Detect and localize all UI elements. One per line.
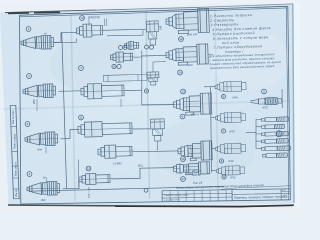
wire T4 to V3 — [133, 128, 151, 130]
dim line under toolholder2 — [36, 99, 38, 111]
boring bar — [103, 74, 147, 81]
svg-text:7: 7 — [223, 129, 225, 133]
balloon 16 — [181, 157, 186, 162]
wire A2 out right — [208, 53, 213, 55]
bus vertical left — [62, 33, 67, 189]
wire T2 to A2 — [125, 89, 142, 91]
vertical tool V4 — [146, 21, 159, 45]
balloon 5 — [262, 89, 267, 94]
fold crease vertical 3 — [215, 9, 218, 198]
balloon 2 — [27, 74, 32, 79]
wire T5 to A4 — [133, 150, 178, 153]
balloon kch4 — [221, 94, 225, 98]
wire tree branch 1 — [256, 118, 262, 120]
svg-text:Ø25×2: Ø25×2 — [191, 173, 201, 177]
svg-text:15 Ø42: 15 Ø42 — [113, 161, 122, 165]
filing divider 2 — [12, 150, 18, 152]
svg-text:9: 9 — [113, 65, 115, 69]
assembly A1 — [166, 8, 210, 34]
svg-text:3: 3 — [27, 122, 29, 126]
tool KCh3 — [215, 112, 245, 123]
mid tool T0 — [124, 41, 139, 49]
balloon 17 — [181, 177, 186, 182]
svg-text:9: 9 — [223, 175, 225, 179]
svg-text:Ø30×2: Ø30×2 — [190, 112, 200, 116]
wire row4 left — [63, 180, 80, 189]
svg-text:11: 11 — [79, 116, 82, 120]
fold crease vertical 1 — [71, 14, 75, 201]
svg-text:КЧ2: КЧ2 — [228, 159, 234, 163]
filing margin box top — [10, 104, 16, 106]
dim line toolholder4 — [46, 178, 48, 183]
vertical tool V2 — [147, 72, 159, 85]
svg-text:Ø40: Ø40 — [36, 148, 42, 151]
balloon pair a — [112, 64, 116, 68]
balloon 7 — [79, 66, 84, 71]
balloon 12 — [179, 37, 184, 42]
svg-text:13: 13 — [181, 90, 185, 94]
title block — [162, 189, 290, 202]
balloon 11 — [79, 115, 84, 120]
wire tree branch 3 — [256, 133, 262, 135]
svg-text:8: 8 — [182, 115, 184, 119]
svg-text:14: 14 — [178, 71, 182, 75]
svg-text:6: 6 — [223, 95, 225, 99]
right margin beyond paper — [294, 3, 301, 212]
assembly A5 — [173, 162, 209, 175]
wire row1 dim extension — [88, 19, 90, 26]
mid tool T1m — [76, 24, 103, 38]
wire bus to A2 — [142, 54, 166, 57]
filing margin column inner — [16, 105, 19, 199]
balloon 14 — [178, 70, 183, 75]
wire kch bus — [211, 87, 212, 173]
wire T1s to bus — [134, 56, 142, 58]
mid tool T5 — [98, 144, 133, 158]
svg-text:Инв.№ подл.: Инв.№ подл. — [12, 109, 15, 124]
svg-text:КЧ3: КЧ3 — [229, 129, 235, 133]
toolholder 1 — [21, 35, 54, 50]
filing divider 6 — [13, 198, 19, 200]
balloon 10 — [80, 16, 85, 21]
svg-text:140: 140 — [160, 25, 163, 30]
wire drill drop — [281, 89, 283, 108]
tree tool 5 — [261, 146, 290, 151]
dim line under toolholder3 — [45, 147, 47, 154]
mid tool T4 — [78, 121, 133, 138]
frame top border — [20, 6, 288, 15]
balloon 3 — [25, 122, 30, 127]
assembly A4 — [178, 141, 213, 161]
filing divider 1 — [11, 125, 17, 127]
balloon kch2 — [219, 159, 223, 163]
toolholder 4 — [27, 181, 60, 196]
balloon t1 pair — [119, 46, 123, 50]
assembly A3 — [173, 93, 212, 116]
svg-text:цилиндра КУ-65: цилиндра КУ-65 — [164, 198, 181, 201]
svg-text:Ø60: Ø60 — [40, 199, 46, 202]
wire bus to A3 — [142, 104, 174, 106]
mid tool T6 — [79, 173, 111, 185]
balloon 15 — [86, 166, 91, 171]
wire V3 drop — [157, 141, 159, 151]
tree tool 4 — [261, 139, 288, 144]
tool KCh2 — [215, 143, 245, 154]
wire bottom left vertical — [78, 160, 80, 187]
svg-text:Подп. и дата: Подп. и дата — [14, 133, 17, 149]
balloon 13 — [181, 89, 186, 94]
balloon pair b — [117, 64, 121, 68]
filing margin column outer — [10, 106, 13, 200]
svg-text:7: 7 — [80, 66, 82, 70]
wire row1 bar bottom — [107, 34, 143, 37]
wire tree branch 4 — [256, 140, 262, 142]
frame right border second line — [286, 7, 289, 200]
paper right edge shadow — [293, 4, 294, 203]
tree tool 2 — [261, 124, 284, 129]
svg-text:9: 9 — [146, 89, 148, 93]
svg-text:17: 17 — [181, 177, 185, 181]
wire kch branch C — [211, 148, 215, 150]
wire V4 to A1 shank — [159, 21, 166, 29]
filing divider 3 — [12, 165, 18, 167]
svg-text:Ø51: Ø51 — [137, 163, 144, 167]
wire V2 drop — [153, 62, 166, 73]
wire mid bus vertical — [141, 51, 143, 106]
paper bottom edge shadow — [8, 205, 294, 206]
wire bottom long line — [30, 186, 224, 191]
assembly A2 — [166, 44, 209, 66]
wire kch branch D — [211, 170, 216, 172]
bottom margin beyond paper — [0, 204, 300, 212]
svg-text:лист: лист — [281, 190, 287, 192]
svg-text:2: 2 — [28, 74, 30, 78]
svg-text:Ø18 L=106: Ø18 L=106 — [89, 186, 91, 199]
fold crease horizontal — [3, 101, 291, 109]
wire row1 bar end — [142, 30, 144, 35]
wire row1 to bus — [54, 32, 78, 42]
filing divider 5 — [13, 188, 19, 190]
svg-text:1: 1 — [28, 27, 30, 31]
balloon 1 — [26, 27, 31, 32]
svg-text:Ø85 215: Ø85 215 — [191, 170, 202, 173]
svg-text:Ø40 140: Ø40 140 — [186, 32, 198, 36]
svg-text:240: 240 — [187, 63, 193, 67]
svg-text:15: 15 — [87, 167, 91, 171]
tree tool 3 — [261, 130, 288, 137]
svg-text:10: 10 — [80, 16, 84, 20]
wire row1 under T1m — [54, 38, 77, 42]
svg-text:5: 5 — [263, 90, 265, 94]
balloon 9b — [144, 89, 148, 93]
mid tool T2 — [81, 83, 125, 99]
frame top border second line — [20, 8, 287, 17]
mid tool T1s — [110, 52, 133, 63]
balloon bottom — [144, 188, 148, 192]
wire row3 left — [61, 129, 79, 138]
svg-text:Взам. инв.№: Взам. инв.№ — [14, 161, 17, 176]
balloon v4 pair a — [145, 45, 149, 49]
balloon 8 — [180, 114, 185, 119]
toolholder 3 — [25, 132, 58, 147]
wire tree branch 2 — [256, 126, 262, 128]
paper stain 2 — [155, 118, 255, 182]
wire T1m to V4 — [103, 29, 146, 30]
paper stain 1 — [50, 37, 140, 93]
svg-text:КЧ4: КЧ4 — [232, 95, 238, 99]
vertical tool V3 — [150, 119, 165, 141]
balloon v4 pair b — [150, 45, 154, 49]
svg-text:Ø40/140: Ø40/140 — [87, 15, 100, 19]
wire kch branch A — [204, 86, 216, 88]
frame bottom border — [21, 200, 291, 204]
svg-text:8: 8 — [221, 159, 223, 163]
wire row2 left — [59, 90, 82, 93]
svg-text:12: 12 — [179, 37, 183, 41]
frame right border — [288, 6, 291, 200]
tree tool 6 — [262, 153, 287, 158]
wire kch branch B — [211, 117, 216, 119]
toolholder 2 — [23, 84, 56, 99]
filing divider 4 — [13, 177, 19, 179]
dim line under T3 — [120, 99, 122, 107]
wire row1 dim extension c — [104, 19, 106, 26]
wire A5 region box — [66, 160, 68, 188]
svg-text:4: 4 — [29, 172, 31, 176]
wire row1 dim extension b — [106, 19, 108, 27]
svg-text:Инв.№: Инв.№ — [15, 189, 18, 197]
balloon t1 pair2 — [123, 46, 127, 50]
wire tree branch 5 — [256, 147, 262, 149]
wire tree feed — [246, 131, 256, 133]
paper sheet — [0, 4, 295, 206]
svg-text:КЧ1: КЧ1 — [230, 175, 236, 179]
tool KCh4 — [215, 81, 246, 92]
svg-text:КЛ2: КЛ2 — [262, 105, 268, 109]
tool KCh1 — [216, 166, 244, 176]
balloon kch1 — [222, 175, 226, 179]
svg-text:Ø50: Ø50 — [33, 99, 36, 105]
wire T6 to A5 — [111, 168, 174, 179]
drill tool 5 — [251, 97, 282, 105]
fold crease vertical 2 — [146, 11, 150, 199]
balloon 4 — [27, 172, 32, 177]
paper top edge shadow streak — [5, 11, 33, 14]
balloon kch3 — [221, 129, 225, 133]
paper bright patch — [210, 30, 290, 90]
frame left border — [20, 15, 21, 204]
filing margin vertical text — [12, 109, 18, 197]
wire tree bracket — [255, 119, 257, 148]
svg-text:16: 16 — [181, 157, 185, 161]
tree tool 1 — [261, 117, 288, 122]
